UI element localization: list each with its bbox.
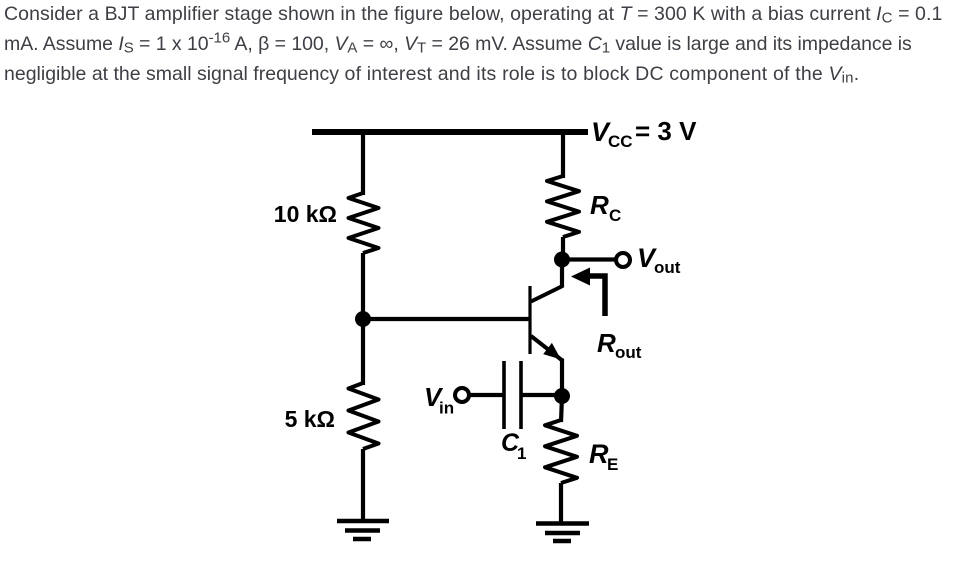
wire: C1 right plate to node E: [521, 393, 562, 397]
resistor RE zigzag: [545, 420, 577, 483]
wire: Vin to C1 left plate: [469, 393, 505, 397]
wire: node E to RE top: [561, 396, 562, 422]
label RE: [589, 439, 618, 474]
label 5 kOhm: [285, 406, 335, 432]
Vcc label: Vcc = 3 V: [591, 116, 697, 151]
svg-text:E: E: [607, 455, 618, 474]
terminal Vin open circle: [455, 388, 469, 402]
wire: rail to R1 top: [361, 129, 365, 195]
label RC: [590, 190, 621, 225]
svg-text:out: out: [654, 258, 681, 277]
svg-text:in: in: [439, 399, 454, 418]
wire: R1 bottom to node B: [361, 253, 365, 322]
wire: emitter vertical to node E: [560, 359, 564, 393]
node C collector junction dot: [554, 252, 570, 268]
node E emitter junction dot: [554, 388, 570, 404]
wire: R2 bottom to left ground: [361, 449, 365, 521]
svg-text:C: C: [609, 206, 621, 225]
svg-text:R: R: [590, 190, 609, 220]
Rout arrow: [571, 268, 605, 317]
label 10 kOhm: [274, 201, 337, 227]
svg-text:10 kΩ: 10 kΩ: [274, 201, 337, 227]
Vcc power rail: [312, 129, 588, 135]
svg-text:R: R: [597, 328, 616, 358]
terminal Vout open circle: [616, 253, 630, 267]
label Vout: [637, 243, 681, 277]
wire: RE bottom to right ground: [559, 483, 563, 523]
ground left: [337, 521, 389, 539]
label Rout: [597, 328, 642, 362]
svg-text:= 3 V: = 3 V: [635, 116, 697, 146]
wire: rail to RC top: [561, 129, 565, 178]
wire: base wire from node B to transistor base: [363, 317, 529, 321]
ground right: [536, 524, 589, 542]
resistor RC zigzag: [547, 176, 579, 237]
label C1: [501, 429, 526, 463]
svg-text:out: out: [615, 343, 642, 362]
capacitor C1 left plate: [502, 361, 506, 429]
transistor Q1 emitter diagonal with arrow: [531, 336, 562, 361]
wire: node B to R2 top: [361, 319, 365, 385]
wire: RC bottom to collector node: [561, 237, 565, 260]
transistor Q1 collector diagonal: [531, 286, 563, 302]
svg-text:1: 1: [517, 444, 526, 463]
wire: collector vertical: [560, 262, 564, 288]
transistor Q1 base bar: [528, 286, 531, 354]
svg-text:R: R: [589, 439, 609, 469]
resistor R1 10 kOhm zigzag: [349, 193, 379, 253]
svg-text:CC: CC: [608, 132, 633, 151]
wire: collector node to Vout terminal: [562, 257, 616, 261]
label Vin: [424, 382, 454, 418]
capacitor C1 right plate: [519, 361, 523, 429]
resistor R2 5 kOhm zigzag: [349, 383, 379, 449]
svg-text:5 kΩ: 5 kΩ: [285, 406, 335, 432]
node B junction dot: [355, 311, 371, 327]
